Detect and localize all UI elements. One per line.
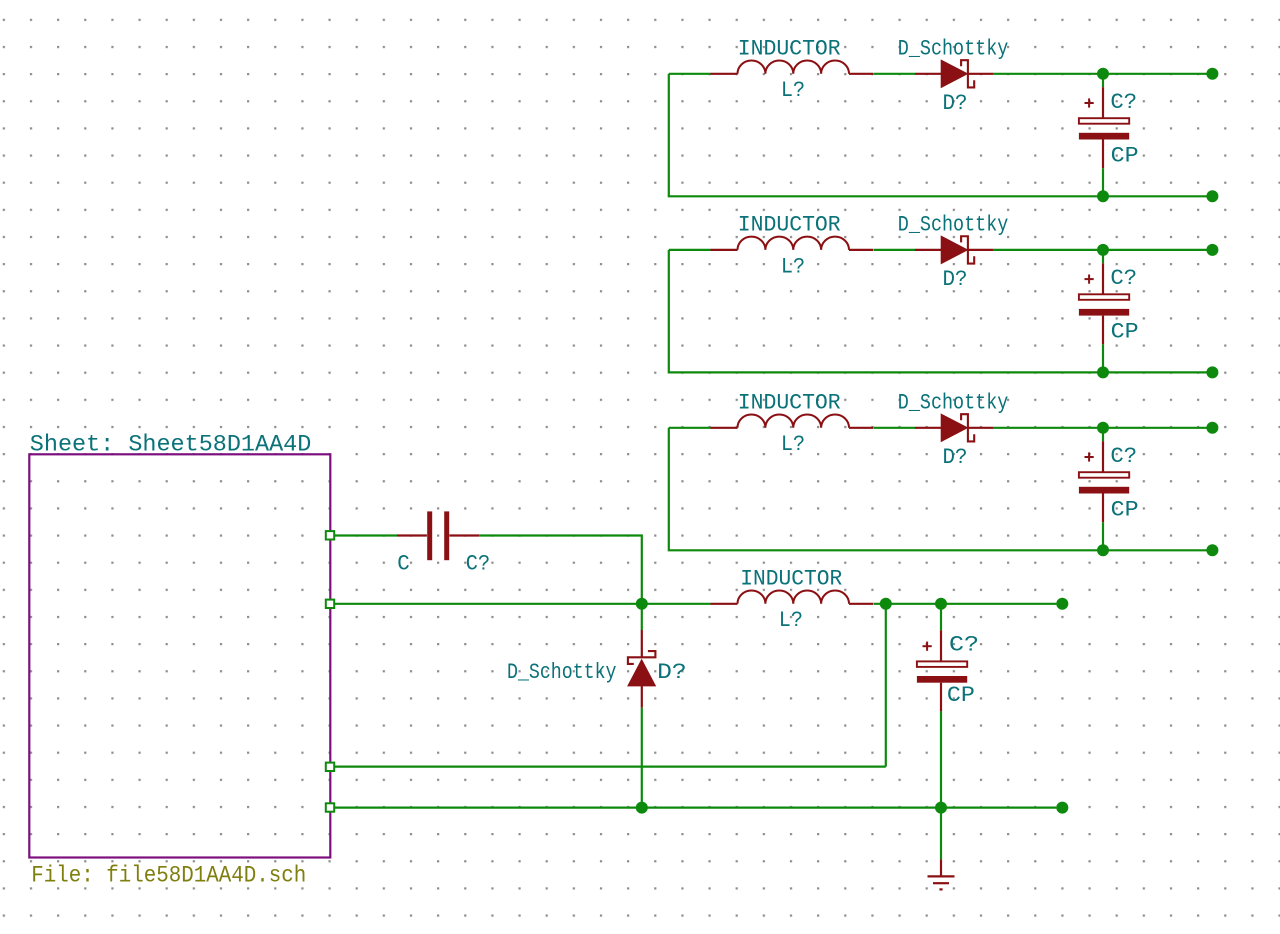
capacitor C? (CP polarized) stage1 <box>1102 87 1104 118</box>
wire ground stem <box>940 808 942 860</box>
wire stage3 diode to output <box>994 427 1213 429</box>
svg-text:C?: C? <box>949 632 979 658</box>
svg-text:C?: C? <box>466 550 490 576</box>
svg-text:CP: CP <box>1111 143 1139 169</box>
node stage2 output top <box>1206 244 1218 256</box>
svg-text:D?: D? <box>943 90 968 116</box>
junction stage3 cap top <box>1097 422 1109 434</box>
junction stage1 cap top <box>1097 68 1109 80</box>
node stage1 output top <box>1206 68 1218 80</box>
svg-text:INDUCTOR: INDUCTOR <box>738 212 841 238</box>
capacitor C? (C non-polarized) <box>397 534 427 536</box>
wire stage2 capacitor branch bottom <box>1102 344 1104 372</box>
junction net B at feedback corner <box>880 598 892 610</box>
node stage3 output top <box>1206 422 1218 434</box>
svg-text:CP: CP <box>947 682 975 708</box>
wire net B inductor to end <box>873 603 1056 605</box>
sheet pin 2 <box>326 600 334 608</box>
diode D? (D_Schottky) stage2 <box>915 249 941 251</box>
svg-text:C?: C? <box>1110 443 1137 469</box>
wire stage2 diode to output <box>994 249 1213 251</box>
svg-text:INDUCTOR: INDUCTOR <box>738 390 841 416</box>
capacitor C? (CP polarized) bottom <box>940 630 942 661</box>
svg-text:L?: L? <box>781 431 805 457</box>
svg-text:D?: D? <box>657 659 687 685</box>
wire stage2 left vertical and bottom return <box>669 250 1213 373</box>
wire net B sheet to inductor <box>334 603 710 605</box>
wire stage1 left vertical and bottom return <box>669 74 1213 197</box>
junction stage1 cap bottom <box>1097 190 1109 202</box>
inductor L? bottom <box>711 603 738 605</box>
svg-text:C: C <box>397 550 410 576</box>
svg-text:CP: CP <box>1111 497 1139 523</box>
wire stage1 inductor to diode <box>873 73 915 75</box>
sheet pin 1 <box>326 531 334 539</box>
wire stage1 diode to output <box>994 73 1213 75</box>
node stage1 output bottom <box>1206 190 1218 202</box>
wire stage3 capacitor branch bottom <box>1102 522 1104 550</box>
wire stage3 capacitor branch top <box>1102 428 1104 441</box>
wire stage3 top-left segment <box>669 427 711 429</box>
wire diode branch lower <box>641 708 643 808</box>
diode D? (D_Schottky) shunt <box>641 630 643 657</box>
wire stage3 inductor to diode <box>873 427 915 429</box>
node stage2 output bottom <box>1206 366 1218 378</box>
svg-text:INDUCTOR: INDUCTOR <box>740 566 842 592</box>
wire diode branch upper <box>641 604 643 630</box>
capacitor C? (CP polarized) stage3 <box>1102 441 1104 472</box>
junction net D at diode branch <box>636 802 648 814</box>
sheet symbol Sheet58D1AA4D <box>29 454 330 857</box>
wire stage2 top-left segment <box>669 249 711 251</box>
wire CP branch upper <box>940 604 942 631</box>
diode D? (D_Schottky) stage3 <box>915 427 941 429</box>
inductor L? stage2 <box>711 249 738 251</box>
wire stage3 left vertical and bottom return <box>669 428 1213 551</box>
sheet pin 4 <box>326 803 334 811</box>
svg-text:L?: L? <box>781 77 805 103</box>
svg-text:D_Schottky: D_Schottky <box>507 659 617 685</box>
svg-text:Sheet: Sheet58D1AA4D: Sheet: Sheet58D1AA4D <box>30 431 312 457</box>
svg-text:D_Schottky: D_Schottky <box>898 212 1009 238</box>
node net B right end <box>1056 598 1068 610</box>
node stage3 output bottom <box>1206 544 1218 556</box>
wire feedback vertical <box>885 604 887 767</box>
junction net D at CP-GND branch <box>935 802 947 814</box>
wire stage1 top-left segment <box>669 73 711 75</box>
svg-text:CP: CP <box>1111 319 1139 345</box>
svg-text:L?: L? <box>779 607 803 633</box>
ground <box>940 859 942 875</box>
svg-text:D?: D? <box>943 266 968 292</box>
junction net B at CP branch <box>935 598 947 610</box>
sheet pin 3 <box>326 763 334 771</box>
wire CP branch lower <box>940 711 942 807</box>
node net D right end <box>1056 802 1068 814</box>
svg-text:D_Schottky: D_Schottky <box>898 36 1009 62</box>
svg-text:D?: D? <box>943 444 968 470</box>
wire net D sheet to end <box>334 806 1056 808</box>
svg-text:INDUCTOR: INDUCTOR <box>738 36 841 62</box>
wire stage1 capacitor branch bottom <box>1102 168 1104 196</box>
svg-text:C?: C? <box>1110 265 1137 291</box>
wire net A sheet to C <box>334 534 397 536</box>
wire net A C to corner down to net B <box>479 536 642 604</box>
junction stage2 cap top <box>1097 244 1109 256</box>
wire stage1 capacitor branch top <box>1102 74 1104 87</box>
wire net C sheet pin3 to feedback <box>334 765 886 767</box>
wire stage2 capacitor branch top <box>1102 250 1104 263</box>
inductor L? stage3 <box>711 427 738 429</box>
wire stage2 inductor to diode <box>873 249 915 251</box>
inductor L? stage1 <box>711 73 738 75</box>
svg-text:D_Schottky: D_Schottky <box>898 390 1009 416</box>
junction stage2 cap bottom <box>1097 366 1109 378</box>
svg-text:File: file58D1AA4D.sch: File: file58D1AA4D.sch <box>31 862 306 888</box>
diode D? (D_Schottky) stage1 <box>915 73 941 75</box>
junction net B at diode branch <box>636 598 648 610</box>
junction stage3 cap bottom <box>1097 544 1109 556</box>
capacitor C? (CP polarized) stage2 <box>1102 263 1104 294</box>
svg-text:L?: L? <box>781 253 805 279</box>
svg-text:C?: C? <box>1110 89 1137 115</box>
